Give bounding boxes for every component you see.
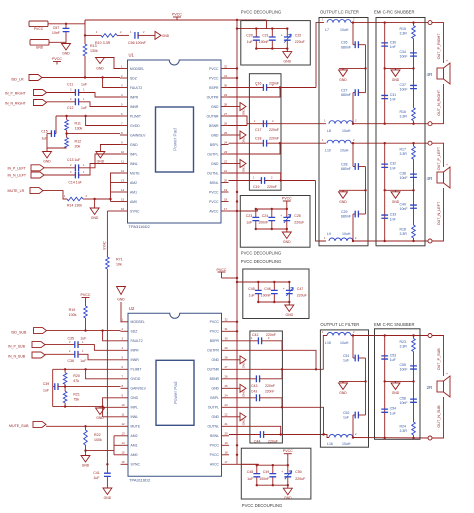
svg-text:28: 28 — [225, 356, 229, 360]
svg-text:GND: GND — [283, 240, 291, 244]
svg-text:INNL: INNL — [131, 415, 139, 419]
svg-text:OUT_P_SUB: OUT_P_SUB — [437, 348, 441, 370]
svg-text:10: 10 — [122, 403, 126, 407]
power PVCC flag — [283, 200, 291, 202]
svg-text:10nF: 10nF — [400, 55, 408, 59]
svg-text:20: 20 — [225, 432, 229, 436]
resistor R21 75k — [63, 391, 80, 403]
svg-text:C23: C23 — [246, 214, 252, 218]
node output terminal OUT_P_RIGHT — [428, 21, 432, 25]
svg-text:GND: GND — [339, 78, 347, 82]
node junction R10 branch — [84, 34, 86, 36]
svg-text:1uF: 1uF — [343, 415, 349, 419]
svg-text:680nF: 680nF — [341, 93, 351, 97]
wire R20 R21 junction to U2 GAIN — [64, 384, 66, 391]
svg-text:C25: C25 — [294, 214, 300, 218]
capacitor C11 1uF — [47, 82, 88, 96]
svg-text:L8: L8 — [327, 129, 331, 133]
ground — [283, 49, 292, 64]
svg-text:PVCC DECOUPLING: PVCC DECOUPLING — [241, 250, 281, 255]
svg-text:C36: C36 — [68, 359, 74, 363]
svg-text:27: 27 — [225, 365, 229, 369]
wire GND pin9 to ground — [100, 145, 120, 152]
svg-text:1uF: 1uF — [247, 40, 253, 44]
wire sub divider ground rail — [52, 387, 54, 407]
svg-text:C58: C58 — [400, 397, 406, 401]
ground sideways after C56 — [152, 31, 170, 39]
svg-text:L10: L10 — [325, 149, 331, 153]
svg-text:AM0: AM0 — [130, 200, 137, 204]
svg-text:220nF: 220nF — [269, 137, 279, 141]
wire PVCC trunk vertical — [236, 20, 238, 211]
ground sub divider — [96, 407, 105, 420]
wire OUTNR pin27 to L8 — [229, 116, 327, 124]
svg-text:C51: C51 — [343, 354, 349, 358]
capacitor C50 220uF — [281, 464, 305, 486]
wire /SD_LR to SDZ pin2 — [42, 77, 120, 79]
wire trunk into top decoupling box — [237, 28, 258, 30]
svg-text:U1: U1 — [129, 53, 135, 58]
svg-text:GND: GND — [211, 387, 219, 391]
svg-text:C14 1uF: C14 1uF — [68, 180, 81, 184]
capacitor C58 10nF — [400, 381, 417, 422]
wire L15 to snubber — [351, 335, 430, 337]
ground U2 MODSEL — [117, 287, 126, 302]
wire R11 R12 junction to GAIN/SLV pin8 — [66, 130, 68, 137]
svg-text:BSNR: BSNR — [209, 124, 219, 128]
svg-text:3.3R: 3.3R — [400, 152, 408, 156]
capacitor C15 1uF — [41, 116, 56, 140]
svg-text:1uF: 1uF — [343, 358, 349, 362]
svg-text:C26: C26 — [341, 41, 347, 45]
svg-text:10: 10 — [121, 150, 125, 154]
svg-text:GND: GND — [36, 46, 44, 50]
svg-text:PVCC: PVCC — [209, 76, 219, 80]
svg-text:IN_N_RIGHT: IN_N_RIGHT — [5, 102, 27, 106]
wire U2 GND INPL INNL to rail — [103, 398, 121, 417]
capacitor C38 10nF — [400, 159, 417, 190]
svg-text:C40: C40 — [400, 203, 406, 207]
capacitor C35 1uF — [45, 337, 86, 348]
svg-text:220uF: 220uF — [268, 440, 278, 444]
inductor L9 10uH — [324, 232, 357, 241]
capacitor C18 220nF — [229, 137, 327, 147]
svg-text:100nF: 100nF — [261, 294, 271, 298]
ground sideways pin28 — [229, 103, 247, 116]
svg-text:/SD_SUB: /SD_SUB — [11, 331, 27, 335]
svg-text:R16: R16 — [400, 110, 406, 114]
resistor R20 47k — [63, 369, 80, 384]
svg-text:R19: R19 — [69, 308, 76, 312]
svg-text:C17: C17 — [255, 128, 261, 132]
svg-text:C46: C46 — [264, 287, 270, 291]
op-amp U2 TPA3116D2 amplifier IC body — [121, 306, 230, 483]
svg-text:GND: GND — [339, 200, 347, 204]
svg-text:GVDD: GVDD — [131, 377, 141, 381]
svg-text:AVCC: AVCC — [210, 463, 220, 467]
svg-text:30: 30 — [224, 83, 228, 87]
capacitor C21 100nF — [259, 27, 276, 49]
wire OUTPR join OUTNR feed — [282, 350, 316, 369]
svg-text:R22: R22 — [94, 433, 101, 437]
capacitor C54 1uF branch — [381, 381, 396, 439]
svg-text:PVCC: PVCC — [282, 197, 292, 201]
svg-text:1uF: 1uF — [249, 294, 255, 298]
svg-text:C56 100nF: C56 100nF — [128, 41, 147, 45]
wire PVCC rail to R13 — [84, 20, 86, 44]
svg-text:OUTNL: OUTNL — [207, 171, 219, 175]
svg-text:IN_N_SUB: IN_N_SUB — [8, 355, 26, 359]
svg-text:220uF: 220uF — [297, 294, 307, 298]
capacitor C44 220nF — [229, 431, 324, 444]
wire C36 to U2 INNR — [78, 354, 121, 360]
node EMI C-RC SNUBBER box sub — [375, 329, 421, 440]
svg-text:IN_P_LEFT: IN_P_LEFT — [8, 166, 27, 170]
svg-text:+: + — [446, 59, 448, 63]
svg-text:U2: U2 — [129, 306, 135, 311]
ground sideways U2 pin25 — [229, 384, 246, 397]
svg-text:16: 16 — [121, 207, 125, 211]
wire U2 AVCC to decoupling — [229, 463, 259, 465]
svg-text:GND: GND — [242, 108, 246, 116]
svg-text:MUTE: MUTE — [131, 425, 141, 429]
svg-text:17: 17 — [224, 207, 228, 211]
ground sideways pin25 — [229, 131, 247, 144]
wire MUTE_SUB to U2 MUTE — [46, 425, 121, 427]
svg-text:GND: GND — [211, 415, 219, 419]
svg-text:OUTPUT LC FILTER: OUTPUT LC FILTER — [320, 10, 359, 15]
svg-text:AM0: AM0 — [131, 453, 138, 457]
node output terminal OUT_P_SUB — [428, 334, 432, 338]
wire GND connector — [49, 41, 66, 43]
svg-text:BSPL: BSPL — [210, 396, 219, 400]
svg-text:1uF: 1uF — [246, 221, 252, 225]
capacitor C57 10nF — [52, 24, 70, 43]
svg-text:23: 23 — [225, 403, 229, 407]
svg-text:BSPL: BSPL — [210, 143, 219, 147]
wire to speaker — [432, 23, 444, 63]
svg-text:GND: GND — [286, 313, 294, 317]
svg-text:1nF: 1nF — [390, 45, 396, 49]
connector J GND input — [30, 40, 49, 46]
wire OUTPR pin29 up to L7 feed — [229, 88, 281, 98]
capacitor C24 100nF — [258, 208, 275, 230]
svg-text:PLIMIT: PLIMIT — [130, 114, 141, 118]
capacitor C13 1uF — [44, 158, 85, 171]
svg-text:GND: GND — [117, 298, 125, 302]
svg-text:4R: 4R — [427, 72, 434, 77]
speaker 4R — [427, 59, 451, 84]
svg-text:R20: R20 — [73, 374, 80, 378]
svg-text:MUTE: MUTE — [130, 171, 140, 175]
svg-text:C44: C44 — [254, 440, 260, 444]
svg-text:20: 20 — [224, 178, 228, 182]
node OUTPUT LC FILTER box top — [319, 18, 368, 246]
capacitor C29 680nF — [341, 210, 366, 242]
speaker 4R — [427, 163, 451, 188]
capacitor C14 1uF — [44, 170, 85, 184]
svg-text:220nF: 220nF — [269, 128, 279, 132]
node bootstrap capacitor group box sub — [250, 331, 283, 443]
svg-text:3.3R: 3.3R — [400, 232, 408, 236]
wire R71 down to U2 SYNC — [106, 269, 108, 464]
ground sideways U2 pin22 — [229, 413, 246, 426]
wire C14 to INNL pin11 — [79, 164, 121, 176]
resistor R16 3.3R — [400, 108, 416, 125]
ground snubber mid — [391, 381, 400, 395]
wire PVCC pins 18 19 bracket — [236, 191, 238, 193]
svg-text:OUTPR: OUTPR — [207, 349, 219, 353]
svg-text:16: 16 — [122, 460, 126, 464]
svg-text:GND: GND — [96, 416, 104, 420]
svg-text:C53: C53 — [390, 353, 396, 357]
svg-text:C43: C43 — [251, 389, 257, 393]
wire R14 node to MUTE and AM pins — [95, 173, 120, 199]
svg-text:14: 14 — [121, 188, 125, 192]
svg-text:TPA3116D2: TPA3116D2 — [129, 477, 151, 482]
svg-text:C42: C42 — [252, 333, 258, 337]
svg-text:C29: C29 — [341, 210, 347, 214]
svg-text:1nF: 1nF — [390, 166, 396, 170]
svg-text:R17: R17 — [400, 148, 406, 152]
ground MUTE divider — [90, 208, 99, 220]
wire decoupling rails — [257, 464, 288, 466]
wire /SD_SUB to U2 SDZ — [47, 330, 121, 332]
wire filter ground rail — [365, 167, 367, 215]
svg-text:PVCC: PVCC — [217, 268, 227, 272]
svg-text:100nF: 100nF — [259, 40, 269, 44]
svg-text:GND: GND — [62, 52, 70, 56]
svg-text:3.3R: 3.3R — [400, 115, 408, 119]
svg-text:13: 13 — [121, 178, 125, 182]
capacitor C25 220uF — [280, 208, 304, 230]
svg-text:OUTNR: OUTNR — [206, 114, 219, 118]
svg-text:OUTPL: OUTPL — [208, 406, 219, 410]
svg-text:PVCC: PVCC — [210, 320, 220, 324]
ground snubber mid — [391, 68, 400, 82]
svg-text:+: + — [281, 34, 283, 38]
svg-text:10nF: 10nF — [400, 401, 408, 405]
svg-text:10nF: 10nF — [400, 367, 408, 371]
svg-text:C48: C48 — [247, 470, 253, 474]
svg-text:IN_P_SUB: IN_P_SUB — [8, 344, 26, 348]
svg-text:31: 31 — [224, 74, 228, 78]
svg-text:GND: GND — [130, 143, 138, 147]
svg-text:MODSEL: MODSEL — [131, 320, 145, 324]
wire AVCC pin17 to trunk — [229, 210, 241, 212]
inductor L16 10uH — [324, 432, 357, 446]
svg-text:1uF: 1uF — [93, 476, 99, 480]
svg-text:GND: GND — [211, 162, 219, 166]
svg-text:10uH: 10uH — [340, 28, 349, 32]
svg-text:2R: 2R — [427, 385, 434, 390]
wire MUTE_LR to R14 — [43, 191, 67, 199]
resistor R12 20k — [65, 138, 81, 149]
wire C35 to U2 INPR — [78, 345, 121, 351]
node PVCC AVCC decoupling box bottom — [240, 196, 310, 248]
capacitor C17 220nF — [229, 119, 279, 132]
svg-text:OUTPR: OUTPR — [207, 95, 219, 99]
svg-text:10uH: 10uH — [340, 341, 349, 345]
svg-text:AM1: AM1 — [130, 190, 137, 194]
connector IN_P_SUB — [8, 342, 45, 349]
svg-text:MUTE_SUB: MUTE_SUB — [9, 424, 29, 428]
svg-text:+: + — [281, 470, 283, 474]
svg-text:PVCC: PVCC — [172, 13, 182, 17]
svg-text:C45: C45 — [248, 287, 254, 291]
wire decoupling rails — [256, 208, 287, 210]
capacitor C45 1uF — [248, 281, 261, 303]
svg-text:10uH: 10uH — [342, 442, 351, 446]
svg-text:R12: R12 — [75, 139, 82, 143]
node PVCC decoupling box top — [241, 21, 310, 65]
svg-text:220uF: 220uF — [295, 40, 305, 44]
wire L9 output to snubber — [353, 240, 430, 242]
svg-text:C33: C33 — [390, 212, 396, 216]
svg-text:100k: 100k — [69, 313, 77, 317]
svg-text:10nF: 10nF — [400, 87, 408, 91]
capacitor C20 1uF — [246, 27, 259, 49]
svg-text:220nF: 220nF — [267, 185, 277, 189]
svg-text:130k: 130k — [90, 49, 98, 53]
ground pin9 — [96, 152, 105, 164]
svg-text:PVCC: PVCC — [283, 449, 293, 453]
svg-text:22: 22 — [224, 159, 228, 163]
capacitor C43 220nF — [229, 375, 282, 387]
capacitor C49 100nF — [259, 464, 276, 486]
svg-text:3.3R: 3.3R — [400, 345, 408, 349]
svg-text:EMI C-RC SNUBBER: EMI C-RC SNUBBER — [374, 10, 414, 15]
svg-text:C19: C19 — [253, 185, 259, 189]
svg-text:220nF: 220nF — [265, 389, 274, 393]
svg-text:MUTE_LR: MUTE_LR — [8, 189, 25, 193]
svg-text:C49: C49 — [263, 470, 269, 474]
capacitor C30 1nF branch — [381, 21, 396, 68]
power PVCC flag top — [172, 13, 182, 21]
inductor L7 10uH — [322, 18, 355, 32]
svg-text:C47: C47 — [297, 287, 303, 291]
svg-text:25: 25 — [225, 384, 229, 388]
svg-text:GND: GND — [242, 165, 246, 173]
svg-text:GND: GND — [43, 160, 51, 164]
svg-text:15: 15 — [121, 197, 125, 201]
svg-text:4R: 4R — [427, 176, 434, 181]
svg-text:22: 22 — [225, 413, 229, 417]
ground sub filter — [339, 381, 348, 395]
wire PVCC pins 31 32 bracket — [229, 68, 238, 70]
svg-text:1uF: 1uF — [81, 82, 87, 86]
svg-text:INPL: INPL — [130, 152, 138, 156]
svg-text:24: 24 — [224, 140, 228, 144]
svg-text:12: 12 — [121, 169, 125, 173]
svg-text:GND: GND — [211, 105, 219, 109]
svg-text:GAIN/SLV: GAIN/SLV — [131, 387, 147, 391]
svg-text:100nF: 100nF — [258, 221, 268, 225]
capacitor C42 220nF — [229, 333, 282, 344]
svg-text:GND: GND — [97, 160, 105, 164]
svg-text:PVCC: PVCC — [209, 190, 219, 194]
inductor L15 10uH — [322, 330, 355, 345]
svg-text:220nF: 220nF — [269, 81, 279, 85]
svg-text:GND: GND — [284, 496, 292, 500]
svg-text:/SD_LR: /SD_LR — [11, 78, 24, 82]
svg-text:L9: L9 — [327, 232, 331, 236]
wire C12 to INNR pin5 — [79, 102, 121, 107]
svg-text:FAULT2: FAULT2 — [131, 339, 143, 343]
svg-text:R23: R23 — [400, 340, 406, 344]
svg-text:19: 19 — [225, 441, 229, 445]
wire OUTPL to L16 — [229, 407, 324, 434]
svg-text:OUT_P_LEFT: OUT_P_LEFT — [437, 146, 441, 170]
svg-text:R14 130k: R14 130k — [67, 204, 82, 208]
wire decoupling rails — [258, 281, 289, 283]
ground below C57 — [62, 42, 71, 55]
wire snubber ground rail — [385, 67, 414, 69]
svg-text:PVCC: PVCC — [210, 453, 220, 457]
svg-text:75k: 75k — [73, 398, 79, 402]
svg-text:PVCC: PVCC — [209, 67, 219, 71]
svg-text:GND: GND — [91, 216, 99, 220]
svg-text:BSPR: BSPR — [209, 86, 219, 90]
svg-text:GND: GND — [96, 67, 104, 71]
wire snubber ground rail — [385, 380, 414, 382]
svg-text:C43: C43 — [251, 384, 257, 388]
svg-text:BSNR: BSNR — [210, 377, 220, 381]
wire C42 to OUTPR pin29 — [229, 341, 282, 351]
wire U2 PVCC pins bracket — [229, 321, 237, 323]
capacitor C27 680nF — [341, 88, 366, 125]
resistor R17 3.3R — [400, 142, 416, 159]
svg-text:14: 14 — [122, 441, 126, 445]
svg-text:20k: 20k — [75, 144, 81, 148]
svg-text:C34: C34 — [400, 50, 406, 54]
ground filter mid — [339, 190, 348, 204]
svg-text:EMI C-RC SNUBBER: EMI C-RC SNUBBER — [374, 322, 414, 327]
svg-text:GND: GND — [104, 496, 112, 500]
svg-text:AVCC: AVCC — [209, 209, 219, 213]
wire OUTNL pin21 down to C19 line — [229, 173, 281, 181]
svg-text:32: 32 — [225, 318, 229, 322]
svg-text:INPL: INPL — [131, 406, 139, 410]
svg-text:GND: GND — [131, 396, 139, 400]
svg-text:C21: C21 — [262, 33, 268, 37]
svg-text:IN_P_RIGHT: IN_P_RIGHT — [5, 91, 26, 95]
connector IN_N_SUB — [8, 352, 45, 359]
svg-text:15: 15 — [122, 451, 126, 455]
capacitor C12 1uF — [47, 97, 88, 110]
svg-text:BSNL: BSNL — [210, 434, 219, 438]
op-amp U1 TPA3116D2 amplifier IC body — [120, 53, 229, 230]
svg-text:C28: C28 — [341, 162, 347, 166]
svg-text:PVCC DECOUPLING: PVCC DECOUPLING — [241, 259, 281, 264]
svg-text:BSNL: BSNL — [210, 181, 219, 185]
wire PVCC trunk sub — [236, 211, 238, 464]
svg-text:SDZ: SDZ — [131, 330, 138, 334]
svg-text:C13 1uF: C13 1uF — [67, 158, 80, 162]
node EMI C-RC SNUBBER box top — [376, 18, 425, 246]
capacitor C22 220uF — [281, 27, 305, 49]
svg-text:C11: C11 — [67, 82, 73, 86]
capacitor C28 680nF — [341, 142, 366, 171]
capacitor C52 1uF — [343, 411, 366, 439]
svg-text:R10 3.3R: R10 3.3R — [95, 41, 111, 45]
svg-text:31: 31 — [225, 327, 229, 331]
svg-text:L16: L16 — [327, 442, 333, 446]
wire U2 FAULTZ jog — [103, 331, 121, 341]
svg-text:C18: C18 — [255, 137, 261, 141]
svg-text:130k: 130k — [75, 127, 83, 131]
capacitor C39 1uF — [43, 369, 65, 392]
